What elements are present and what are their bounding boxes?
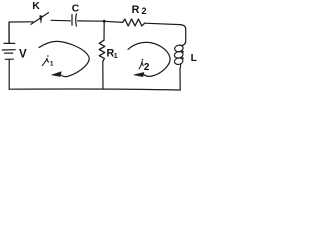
- wire switch to capacitor: [51, 19, 70, 22]
- resistor R1: [99, 40, 105, 61]
- inductor L coil right curl 1: [182, 51, 183, 53]
- label i1 dot: [47, 55, 49, 57]
- loop current i2 arc: [128, 42, 170, 76]
- wire top-left rail: [9, 22, 33, 43]
- inductor L coil loop 3: [174, 57, 184, 65]
- inductor L coil entry: [182, 42, 186, 46]
- wire inductor to bottom-right corner: [179, 69, 181, 90]
- battery V plate 3: [5, 52, 13, 54]
- svg-text:R: R: [132, 4, 140, 16]
- svg-text:2: 2: [142, 6, 147, 16]
- battery V plate 2: [2, 49, 15, 51]
- capacitor C: [71, 15, 73, 26]
- label i1 glyph: [42, 58, 49, 65]
- wire R2 to top-right corner down to inductor: [145, 23, 186, 45]
- capacitor C right plate: [75, 14, 78, 26]
- inductor L coil loop 2: [174, 51, 184, 59]
- battery V plate 1: [4, 42, 15, 44]
- svg-text:1: 1: [50, 60, 54, 67]
- svg-text:L: L: [191, 53, 197, 64]
- inductor L coil loop 1: [174, 44, 184, 52]
- loop current i1 arrowhead: [52, 72, 62, 77]
- wire battery to bottom rail: [8, 60, 10, 89]
- inductor L coil right curl 2: [182, 57, 183, 59]
- wire capacitor to junction: [78, 20, 104, 22]
- loop current i2 arrowhead: [134, 72, 144, 76]
- label i2 dot: [142, 59, 144, 61]
- resistor R2: [123, 19, 145, 26]
- svg-text:C: C: [72, 3, 80, 14]
- loop current i1 arc: [39, 41, 89, 76]
- wire R1 bottom lead: [102, 62, 104, 90]
- wire junction to R2: [104, 21, 123, 22]
- svg-text:1: 1: [114, 53, 118, 60]
- node junction: [103, 20, 106, 23]
- battery V wire from top: [8, 22, 10, 43]
- svg-text:2: 2: [144, 62, 150, 73]
- switch K arrowhead: [40, 16, 42, 24]
- svg-text:V: V: [19, 48, 27, 60]
- label i2 glyph: [139, 62, 143, 69]
- wire bottom rail: [9, 88, 180, 91]
- switch K: [31, 13, 49, 25]
- wire R1 top lead: [103, 21, 105, 40]
- svg-text:K: K: [32, 0, 40, 12]
- inductor L coil exit: [179, 64, 182, 69]
- battery V plate 4: [5, 58, 13, 60]
